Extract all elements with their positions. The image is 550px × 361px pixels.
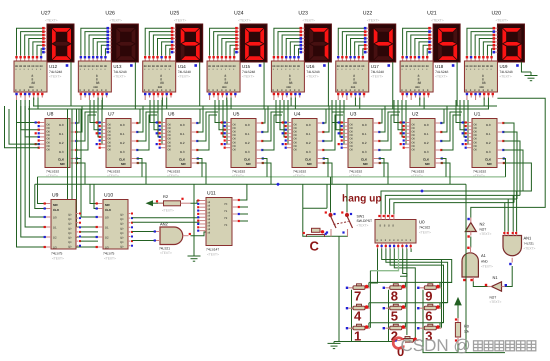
svg-text:88: 88 — [104, 65, 107, 68]
svg-text:O0: O0 — [168, 141, 172, 144]
svg-text:88: 88 — [281, 65, 284, 68]
switch SW1 SW-DPST — [325, 177, 353, 236]
watermark CSDN logo — [393, 338, 405, 349]
svg-text:88: 88 — [401, 65, 404, 68]
svg-text:SW1: SW1 — [357, 215, 365, 219]
svg-text:D3: D3 — [53, 246, 57, 250]
svg-text:O0: O0 — [294, 138, 298, 141]
wires driver U17 bottom to bus — [355, 98, 359, 110]
counter U7 left pins — [96, 121, 106, 148]
wires display U26 to driver U13 — [81, 28, 107, 55]
latch U9 right pins — [76, 213, 81, 247]
node marker near display U20 — [516, 64, 519, 67]
svg-text:NOT: NOT — [480, 228, 487, 232]
latch IC U10 body 74LS75 — [103, 200, 128, 250]
wires display U23 to driver U16 — [274, 28, 300, 55]
node marker near display U23 — [323, 64, 326, 67]
keypad ground rail — [334, 341, 393, 343]
counter U4 right pins — [317, 122, 325, 164]
wire AN1 output to N1 — [505, 266, 512, 287]
wires U0 to keypad nest — [370, 249, 451, 341]
svg-text:U7: U7 — [108, 112, 115, 118]
svg-text:88: 88 — [426, 65, 429, 68]
wire lower rail under watermark — [423, 342, 505, 353]
push button 7 — [346, 284, 370, 290]
wires AN1 inputs from band — [505, 191, 520, 232]
power arrow above R0 — [455, 298, 461, 318]
svg-text:88: 88 — [100, 65, 103, 68]
wire bus2 y184.3 — [35, 183, 466, 185]
svg-text:U23: U23 — [298, 11, 308, 17]
wire display U25 common down — [199, 62, 201, 106]
svg-text:O0: O0 — [47, 127, 51, 130]
svg-text:B.3: B.3 — [306, 150, 311, 154]
wires driver U19 bottom to bus — [484, 98, 488, 110]
svg-text:88: 88 — [422, 65, 425, 68]
svg-text:<TEXT>: <TEXT> — [480, 232, 492, 236]
counter U2 right pins — [435, 122, 443, 164]
svg-text:9: 9 — [425, 288, 432, 303]
driver IC U16 top pins — [273, 56, 300, 62]
svg-text:U11: U11 — [207, 191, 216, 197]
driver IC U19 bottom pins — [466, 92, 494, 100]
svg-text:B.1: B.1 — [306, 132, 311, 136]
wire button0 — [393, 341, 396, 343]
svg-text:U19: U19 — [499, 64, 508, 69]
U0 top pins — [378, 214, 394, 220]
svg-text:<TEXT>: <TEXT> — [490, 300, 502, 304]
svg-text:O0: O0 — [233, 127, 237, 130]
wire bus1 pale y176.9 — [38, 176, 506, 178]
svg-text:O0: O0 — [350, 134, 354, 137]
svg-text:Y1: Y1 — [224, 210, 228, 213]
svg-text:88: 88 — [23, 65, 26, 68]
counter U5 left pins — [221, 121, 231, 148]
wires driver U16 bottom to bus — [291, 98, 295, 110]
svg-text:88: 88 — [160, 65, 163, 68]
7-segment display U22 — [369, 24, 396, 62]
svg-text:O0: O0 — [233, 138, 237, 141]
counter IC U7 body 74LS192 — [106, 119, 131, 168]
svg-text:88: 88 — [96, 65, 99, 68]
svg-text:88: 88 — [27, 65, 30, 68]
svg-text:88: 88 — [297, 65, 300, 68]
svg-text:<TEXT>: <TEXT> — [435, 75, 447, 79]
svg-text:88: 88 — [482, 81, 486, 85]
svg-text:7: 7 — [354, 288, 361, 303]
driver IC U13 bottom pins — [80, 92, 108, 100]
svg-text:<TEXT>: <TEXT> — [232, 174, 244, 178]
svg-text:74LS192: 74LS192 — [349, 170, 362, 174]
driver IC U18 bottom pins — [401, 92, 429, 100]
counter IC U3 feed wires — [332, 100, 344, 144]
driver IC U18 top pins — [401, 56, 428, 62]
driver IC U15 top pins — [208, 56, 235, 62]
svg-text:74LS248: 74LS248 — [499, 70, 512, 74]
svg-text:<TEXT>: <TEXT> — [524, 247, 536, 251]
keypad row wires — [369, 282, 452, 322]
svg-text:<TEXT>: <TEXT> — [162, 209, 174, 213]
svg-text:CLK: CLK — [105, 208, 112, 212]
svg-text:<TEXT>: <TEXT> — [46, 174, 58, 178]
svg-text:U24: U24 — [234, 11, 244, 17]
svg-text:AN2: AN2 — [160, 221, 169, 226]
svg-text:CLK: CLK — [179, 158, 186, 162]
svg-text:74LS248: 74LS248 — [49, 70, 62, 74]
wires U10 to AN2 inputs — [132, 232, 156, 241]
svg-text:O0: O0 — [474, 149, 478, 152]
U0 bottom pins — [376, 243, 411, 249]
svg-text:O0: O0 — [47, 123, 51, 126]
keypad left ground verticals — [352, 290, 424, 342]
svg-text:O0: O0 — [350, 145, 354, 148]
node marker near display U22 — [387, 64, 390, 67]
AND gate AN1 74LS21 — [503, 232, 522, 266]
svg-text:hang up: hang up — [342, 194, 382, 205]
svg-text:O0: O0 — [350, 149, 354, 152]
svg-text:88: 88 — [361, 65, 364, 68]
svg-text:O0: O0 — [233, 149, 237, 152]
junction node diamond 1 — [276, 183, 280, 187]
wires counter U5 clk mr to bus — [262, 159, 272, 185]
keypad column vertical wires — [370, 260, 441, 336]
svg-text:U18: U18 — [435, 64, 444, 69]
svg-text:88: 88 — [409, 65, 412, 68]
latch U10 left pins — [96, 202, 103, 248]
svg-text:B.3: B.3 — [486, 150, 491, 154]
svg-text:88: 88 — [220, 65, 223, 68]
wire R2 left — [152, 202, 164, 204]
svg-text:88: 88 — [486, 65, 489, 68]
svg-text:O0: O0 — [412, 141, 416, 144]
wire display U24 common down — [263, 62, 265, 109]
svg-text:O0: O0 — [47, 145, 51, 148]
wires display U25 to driver U14 — [145, 28, 171, 55]
wires left bus to U9 inputs — [17, 106, 47, 247]
svg-text:<TEXT>: <TEXT> — [104, 257, 116, 261]
counter U8 left pins — [35, 121, 45, 148]
display U20 pins — [493, 27, 498, 54]
display U26 pins — [106, 27, 111, 54]
buffer gate N2 NOT — [465, 218, 476, 238]
node marker near display U21 — [452, 64, 455, 67]
svg-text:U5: U5 — [233, 112, 240, 118]
svg-text:B.1: B.1 — [180, 132, 185, 136]
svg-text:O0: O0 — [294, 141, 298, 144]
svg-text:B.1: B.1 — [424, 132, 429, 136]
counter IC U6 body 74LS192 — [166, 119, 191, 168]
wire horizontal bus y106 — [33, 105, 497, 107]
svg-text:74C922: 74C922 — [419, 226, 430, 230]
wires display U21 to driver U18 — [403, 28, 429, 55]
svg-text:O0: O0 — [108, 145, 112, 148]
svg-text:88: 88 — [418, 81, 422, 85]
driver IC U19 top pins — [466, 56, 493, 62]
counter U1 left pins — [462, 121, 472, 148]
wires far-left to U8 — [5, 106, 40, 148]
svg-text:88: 88 — [164, 65, 167, 68]
wire loop for C and SW1 — [303, 184, 348, 236]
svg-text:888: 888 — [479, 86, 484, 89]
svg-text:R2: R2 — [163, 194, 169, 199]
svg-text:88: 88 — [152, 65, 155, 68]
svg-text:O0: O0 — [350, 141, 354, 144]
svg-text:CLK: CLK — [53, 208, 60, 212]
svg-text:O0: O0 — [233, 141, 237, 144]
svg-text:U3: U3 — [350, 112, 357, 118]
svg-text:U25: U25 — [170, 11, 180, 17]
svg-text:88: 88 — [36, 65, 39, 68]
svg-text:88: 88 — [277, 65, 280, 68]
svg-text:O0: O0 — [108, 149, 112, 152]
svg-text:D1: D1 — [105, 226, 109, 230]
svg-text:888: 888 — [351, 86, 356, 89]
svg-text:O0: O0 — [474, 138, 478, 141]
svg-text:B.0: B.0 — [245, 123, 250, 127]
push button 3 — [417, 324, 441, 330]
svg-text:U9: U9 — [52, 193, 59, 199]
svg-text:O0: O0 — [294, 127, 298, 130]
wire A1 right input from N1 — [473, 282, 487, 287]
svg-text:O0: O0 — [168, 131, 172, 134]
7-segment display U24 — [240, 24, 267, 62]
svg-text:O0: O0 — [168, 145, 172, 148]
counter IC U3 body 74LS192 — [348, 119, 373, 168]
svg-text:U0: U0 — [419, 220, 425, 225]
svg-text:88: 88 — [285, 65, 288, 68]
svg-text:U8: U8 — [47, 112, 54, 118]
svg-text:88: 88 — [478, 65, 481, 68]
svg-text:88: 88 — [96, 81, 100, 85]
svg-text:<TEXT>: <TEXT> — [481, 265, 493, 269]
AND gate AN2 74LS21 — [154, 227, 191, 245]
svg-text:88: 88 — [465, 65, 468, 68]
svg-text:<TEXT>: <TEXT> — [495, 19, 508, 23]
svg-text:88: 88 — [474, 65, 477, 68]
svg-text:CLK: CLK — [58, 158, 65, 162]
svg-text:<TEXT>: <TEXT> — [349, 174, 361, 178]
svg-text:D2: D2 — [105, 236, 109, 240]
svg-text:D0: D0 — [53, 216, 57, 220]
svg-text:O0: O0 — [412, 123, 416, 126]
svg-text:O0: O0 — [47, 141, 51, 144]
svg-text:74LS192: 74LS192 — [473, 170, 486, 174]
svg-text:B.2: B.2 — [180, 141, 185, 145]
svg-text:B.1: B.1 — [59, 132, 64, 136]
svg-text:B.1: B.1 — [362, 132, 367, 136]
svg-text:O0: O0 — [47, 138, 51, 141]
wires display U22 to driver U17 — [338, 28, 364, 55]
svg-text:<TEXT>: <TEXT> — [49, 75, 61, 79]
wires counter U3 outputs up to row bus — [379, 106, 400, 150]
counter U4 left pins — [282, 121, 292, 148]
svg-text:88: 88 — [233, 65, 236, 68]
svg-text:O0: O0 — [168, 123, 172, 126]
svg-text:88: 88 — [224, 65, 227, 68]
svg-text:88: 88 — [32, 81, 36, 85]
push button 2 — [383, 324, 407, 330]
display U24 pins — [235, 27, 240, 54]
driver IC U12 bottom pins — [15, 92, 43, 100]
svg-text:O0: O0 — [412, 127, 416, 130]
svg-text:O0: O0 — [47, 131, 51, 134]
svg-text:O0: O0 — [47, 149, 51, 152]
counter IC U8 feed wires — [17, 100, 41, 144]
capacitor C (push contact) — [303, 228, 327, 237]
wires driver U12 bottom to bus — [34, 98, 38, 110]
driver IC U17 body 74LS248 — [336, 61, 369, 92]
svg-text:74LS248: 74LS248 — [435, 70, 448, 74]
svg-text:B.0: B.0 — [486, 123, 491, 127]
svg-text:B.2: B.2 — [486, 141, 491, 145]
svg-text:88: 88 — [337, 65, 340, 68]
counter IC U2 body 74LS192 — [410, 119, 435, 168]
svg-text:888: 888 — [29, 86, 34, 89]
svg-text:<TEXT>: <TEXT> — [45, 19, 58, 23]
svg-text:O0: O0 — [474, 141, 478, 144]
wire display U20 to ground — [521, 62, 531, 72]
wires counter U1 outputs up to row bus — [0, 0, 1, 1]
svg-text:U14: U14 — [178, 64, 187, 69]
watermark CJK glyph blocks — [474, 341, 536, 351]
svg-text:88: 88 — [272, 65, 275, 68]
wire display U21 common down — [456, 62, 458, 106]
driver IC U18 body 74LS248 — [400, 61, 433, 92]
svg-text:O0: O0 — [474, 127, 478, 130]
wires display U27 to driver U12 — [17, 28, 43, 55]
svg-text:<TEXT>: <TEXT> — [207, 253, 219, 257]
svg-text:74LS248: 74LS248 — [242, 70, 255, 74]
svg-text:B.1: B.1 — [486, 132, 491, 136]
wires driver U13 bottom to bus — [98, 98, 102, 110]
svg-text:888: 888 — [158, 86, 163, 89]
wires bus to U10 MR CLK — [90, 184, 98, 208]
svg-text:U20: U20 — [491, 11, 501, 17]
driver IC U13 top pins — [80, 56, 107, 62]
svg-text:88: 88 — [357, 65, 360, 68]
svg-text:CLK: CLK — [119, 158, 126, 162]
svg-text:O0: O0 — [233, 123, 237, 126]
svg-text:74LS21: 74LS21 — [524, 242, 535, 246]
driver IC U13 body 74LS248 — [78, 61, 111, 92]
svg-text:74LS248: 74LS248 — [371, 70, 384, 74]
svg-text:O0: O0 — [412, 131, 416, 134]
svg-text:88: 88 — [289, 81, 293, 85]
counter IC U5 feed wires — [215, 100, 227, 144]
svg-text:<TEXT>: <TEXT> — [160, 251, 172, 255]
push button 4 — [346, 304, 370, 310]
svg-text:B.0: B.0 — [59, 123, 64, 127]
svg-text:D1: D1 — [53, 226, 57, 230]
svg-text:88: 88 — [353, 65, 356, 68]
resistor R2 — [156, 198, 191, 206]
wire AN2 output to U11 — [191, 232, 207, 236]
wire U11 output up to bus — [240, 184, 247, 200]
svg-text:B.3: B.3 — [362, 150, 367, 154]
svg-text:<TEXT>: <TEXT> — [419, 231, 431, 235]
svg-text:88: 88 — [88, 65, 91, 68]
svg-text:B.3: B.3 — [120, 150, 125, 154]
svg-text:D0: D0 — [105, 216, 109, 220]
svg-text:<TEXT>: <TEXT> — [371, 75, 383, 79]
svg-text:B.3: B.3 — [424, 150, 429, 154]
inverter N1 NOT — [485, 282, 507, 291]
svg-text:B.2: B.2 — [424, 141, 429, 145]
counter U5 right pins — [256, 122, 264, 164]
svg-text:O0: O0 — [474, 123, 478, 126]
resistor R0 — [455, 318, 461, 344]
svg-text:88: 88 — [168, 65, 171, 68]
svg-text:<TEXT>: <TEXT> — [167, 174, 179, 178]
push button 8 — [383, 284, 407, 290]
svg-text:U26: U26 — [105, 11, 115, 17]
svg-text:O0: O0 — [294, 131, 298, 134]
7-segment display U23 — [304, 24, 331, 62]
driver IC U12 body 74LS248 — [14, 61, 47, 92]
push button 0 — [394, 337, 418, 343]
svg-text:B.0: B.0 — [362, 123, 367, 127]
node marker near display U24 — [259, 64, 262, 67]
wires counter U6 outputs up to row bus — [197, 106, 218, 150]
node marker near display U26 — [130, 64, 133, 67]
svg-text:888: 888 — [415, 86, 420, 89]
svg-text:88: 88 — [229, 65, 232, 68]
svg-text:88: 88 — [293, 65, 296, 68]
svg-text:74LS147: 74LS147 — [206, 248, 219, 252]
wires bus to U9 MR CLK — [35, 177, 46, 209]
svg-text:B.0: B.0 — [306, 123, 311, 127]
svg-text:88: 88 — [405, 65, 408, 68]
svg-text:10k: 10k — [464, 330, 470, 334]
wire display U23 common down — [327, 62, 329, 106]
svg-text:<TEXT>: <TEXT> — [357, 224, 369, 228]
svg-text:Y3: Y3 — [224, 224, 228, 227]
encoder U11 right pins — [232, 199, 248, 222]
svg-text:74LS75: 74LS75 — [103, 252, 115, 256]
svg-text:Y2: Y2 — [224, 217, 228, 220]
wire A1 left input net vertical — [465, 184, 467, 352]
svg-text:88: 88 — [212, 65, 215, 68]
wires driver U18 bottom to bus — [420, 98, 424, 110]
counter U3 right pins — [373, 122, 381, 164]
svg-text:U15: U15 — [242, 64, 251, 69]
wires counter U4 outputs up to row bus — [323, 106, 344, 150]
wires U1 outputs to right vertical bus — [503, 123, 531, 203]
wires to U10 inputs — [68, 109, 99, 247]
svg-text:U1: U1 — [474, 112, 481, 118]
svg-text:<TEXT>: <TEXT> — [174, 19, 187, 23]
driver IC U15 body 74LS248 — [207, 61, 240, 92]
driver IC U12 top pins — [15, 56, 42, 62]
svg-text:U21: U21 — [427, 11, 437, 17]
push button 6 — [417, 304, 441, 310]
latch U10 right pins — [128, 213, 133, 247]
svg-text:74LS21: 74LS21 — [159, 247, 170, 251]
node marker near display U25 — [194, 64, 197, 67]
wire N2 output to right band — [471, 98, 545, 217]
svg-text:74LS248: 74LS248 — [306, 70, 319, 74]
counter U7 right pins — [131, 122, 139, 164]
wire display U26 common down — [134, 62, 136, 109]
svg-text:O0: O0 — [233, 134, 237, 137]
svg-text:O0: O0 — [108, 138, 112, 141]
svg-text:O0: O0 — [47, 134, 51, 137]
keypad encoder U0 body — [375, 220, 416, 244]
svg-text:CLK: CLK — [244, 158, 251, 162]
counter IC U7 feed wires — [90, 100, 102, 144]
svg-text:<TEXT>: <TEXT> — [109, 19, 122, 23]
7-segment display U20 — [497, 24, 524, 62]
